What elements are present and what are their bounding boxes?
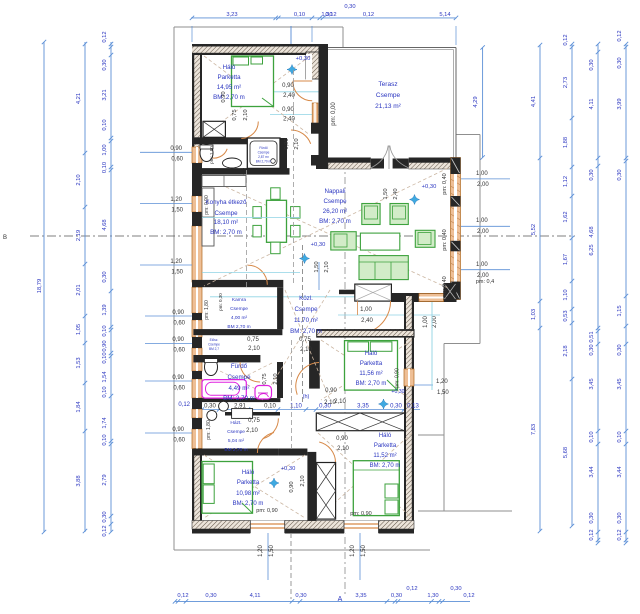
svg-text:BM 2,70 m: BM 2,70 m	[227, 324, 250, 330]
svg-text:Házt.: Házt.	[230, 420, 241, 426]
svg-text:0,30: 0,30	[102, 271, 108, 282]
wall WC/shower bottom	[192, 168, 244, 175]
dim line right col x626	[625, 44, 627, 543]
diag bedroomBL	[204, 455, 305, 518]
svg-text:4,11: 4,11	[589, 99, 595, 110]
svg-text:2,10: 2,10	[300, 475, 306, 486]
svg-text:5,52: 5,52	[531, 224, 537, 235]
svg-text:Nappali: Nappali	[325, 188, 346, 195]
diag bedroomTL	[204, 56, 310, 135]
wall bedroomTL bottom right part	[248, 140, 254, 168]
svg-text:pm: 0,40: pm: 0,40	[442, 173, 448, 194]
svg-text:pm: 0,90: pm: 0,90	[350, 511, 371, 517]
door arc hazt	[263, 418, 279, 438]
svg-text:1,62: 1,62	[563, 211, 569, 222]
french door leaves symbol	[371, 146, 409, 169]
armchair living 1	[362, 204, 380, 225]
blue vlines bottom windows	[267, 533, 269, 580]
svg-text:0,90: 0,90	[284, 138, 290, 149]
svg-text:4,00 m²: 4,00 m²	[231, 315, 248, 321]
svg-text:11,70 m²: 11,70 m²	[294, 317, 318, 324]
svg-text:0,10: 0,10	[617, 431, 623, 442]
wall bedroomBR1 left	[309, 341, 320, 389]
svg-text:2,40: 2,40	[361, 318, 373, 324]
left wall piers lower	[192, 163, 202, 196]
svg-text:0,10: 0,10	[102, 352, 108, 363]
svg-text:1,74: 1,74	[102, 417, 108, 429]
svg-text:18,79: 18,79	[37, 279, 43, 294]
window living bottom	[419, 294, 444, 302]
terrace outline double line	[328, 47, 456, 49]
svg-text:pm: 0,40: pm: 0,40	[442, 276, 448, 297]
svg-text:4,11: 4,11	[250, 593, 261, 599]
svg-text:pm: 0,30: pm: 0,30	[218, 293, 223, 311]
projection dashed x246	[246, 170, 248, 290]
svg-text:Csempe: Csempe	[208, 343, 220, 347]
wall bottom hatch layer	[192, 521, 414, 530]
wall bedroomTL inner right	[306, 54, 312, 84]
svg-text:Csempe: Csempe	[230, 306, 248, 312]
svg-text:2,00: 2,00	[477, 182, 489, 188]
svg-text:11,56 m²: 11,56 m²	[359, 371, 382, 377]
svg-text:0,30: 0,30	[102, 511, 108, 522]
svg-text:2,10: 2,10	[300, 347, 312, 353]
dim line left col3	[110, 42, 112, 532]
svg-text:Parketta: Parketta	[374, 443, 397, 449]
wall left outer	[192, 44, 202, 532]
svg-text:0,90: 0,90	[221, 91, 227, 102]
dining chairs right	[291, 207, 300, 219]
blue vline right lower	[431, 302, 433, 390]
wall kamra right	[277, 287, 283, 329]
svg-text:0,30: 0,30	[617, 169, 623, 180]
wall furdo bottom	[193, 398, 280, 402]
svg-text:1,84: 1,84	[76, 401, 82, 413]
section line below	[290, 533, 292, 599]
svg-text:Csempe: Csempe	[376, 92, 401, 99]
roof overhang line right of terrace	[456, 134, 480, 136]
mark diamond hall	[379, 399, 389, 409]
svg-text:1,20: 1,20	[258, 545, 264, 557]
wall stub left of entry	[339, 290, 355, 295]
door arc bedroomTL	[241, 122, 258, 139]
side chair living right	[415, 230, 435, 247]
svg-text:0,90: 0,90	[172, 427, 184, 433]
svg-text:1,50: 1,50	[269, 545, 275, 557]
svg-text:0,90: 0,90	[282, 107, 294, 113]
svg-text:1,20: 1,20	[436, 379, 448, 385]
section line A vertical dashed	[344, 162, 346, 595]
svg-text:2,79: 2,79	[102, 474, 108, 485]
site boundary bottom thin line	[174, 549, 430, 551]
door arc furdo	[240, 362, 260, 382]
svg-text:1,10: 1,10	[290, 404, 302, 410]
sill hatch right	[409, 163, 454, 170]
dim line right col x572	[571, 44, 573, 526]
svg-text:0,90: 0,90	[336, 436, 348, 442]
svg-text:0,10: 0,10	[102, 434, 108, 445]
svg-text:Csempe: Csempe	[258, 151, 270, 155]
wall vestibule-left lower	[311, 155, 320, 166]
svg-text:2,10: 2,10	[324, 400, 336, 406]
svg-text:7,83: 7,83	[531, 424, 537, 435]
svg-text:0,10: 0,10	[294, 12, 305, 18]
svg-text:3,45: 3,45	[617, 378, 623, 389]
wall right lower (x404)	[404, 296, 414, 532]
bed BR2	[353, 461, 399, 516]
svg-text:1,00: 1,00	[102, 144, 108, 155]
bed BL	[202, 462, 253, 514]
svg-text:0,30: 0,30	[617, 344, 623, 355]
wall living top (terrace south)	[316, 158, 456, 166]
dim line left col2	[84, 42, 86, 532]
svg-text:2,10: 2,10	[334, 399, 346, 405]
window bottom bedroom1	[250, 521, 284, 534]
svg-text:BM: 2,70 m: BM: 2,70 m	[290, 328, 322, 335]
svg-text:0,30: 0,30	[102, 59, 108, 70]
svg-text:0,30: 0,30	[295, 593, 306, 599]
door arc bedroomBR1	[296, 363, 319, 395]
svg-text:2,00: 2,00	[432, 316, 438, 328]
svg-text:0,12: 0,12	[363, 12, 374, 18]
svg-text:2,10: 2,10	[294, 138, 300, 149]
svg-text:2,10: 2,10	[273, 373, 279, 384]
pier living right corner top	[451, 158, 461, 175]
projection dashed x302	[302, 245, 304, 402]
svg-text:BM: 2,70 m: BM: 2,70 m	[233, 501, 264, 507]
svg-text:1,05: 1,05	[76, 324, 82, 335]
wardrobe mid xbox	[316, 413, 404, 431]
window glass lines right wall	[454, 158, 457, 300]
wc sink	[223, 158, 242, 168]
sill hatch left	[328, 163, 371, 170]
svg-text:+0,30: +0,30	[296, 56, 311, 62]
shower tub top	[247, 138, 280, 168]
dim line hall strip	[196, 409, 420, 411]
kitchen counter	[202, 188, 214, 246]
furdo toilet	[205, 359, 218, 376]
left wall pier kitchen 3	[192, 272, 202, 280]
svg-text:0,30: 0,30	[617, 512, 623, 523]
wall vestibule-left upper	[311, 123, 320, 134]
svg-text:3,35: 3,35	[355, 593, 366, 599]
wall furdo right	[277, 362, 283, 398]
svg-text:1,03: 1,03	[531, 309, 537, 320]
svg-text:1,00: 1,00	[476, 262, 488, 268]
svg-text:10,98 m²: 10,98 m²	[236, 491, 260, 497]
door arc kamra	[248, 265, 268, 285]
svg-text:Csempe: Csempe	[227, 429, 245, 435]
svg-text:0,90: 0,90	[172, 310, 184, 316]
svg-text:2,40: 2,40	[393, 188, 399, 199]
svg-text:0,90: 0,90	[172, 337, 184, 343]
svg-text:pm: 0,90: pm: 0,90	[256, 508, 277, 514]
wardrobe BL2 xbox	[316, 463, 335, 520]
svg-text:0,90: 0,90	[170, 146, 182, 152]
svg-text:0,60: 0,60	[173, 386, 185, 392]
svg-text:1,30: 1,30	[427, 593, 438, 599]
entry door arc	[369, 301, 391, 332]
cyan helper line mid	[210, 296, 450, 298]
svg-text:BM: 2,70 m: BM: 2,70 m	[213, 94, 245, 101]
diag kozl	[285, 290, 330, 400]
svg-text:+0,30: +0,30	[311, 242, 326, 248]
svg-text:1,50: 1,50	[361, 545, 367, 557]
svg-text:0,30: 0,30	[391, 593, 402, 599]
svg-text:(h): (h)	[303, 394, 310, 400]
dining chair bottom	[271, 242, 280, 254]
svg-text:+0,30: +0,30	[281, 466, 296, 472]
wall bedroomBR1 top	[317, 329, 414, 338]
svg-text:0,30: 0,30	[450, 586, 461, 592]
svg-text:BM: 2,70 m: BM: 2,70 m	[356, 381, 387, 387]
svg-text:BM: 2,70 m: BM: 2,70 m	[319, 218, 351, 225]
armchair living 2	[390, 204, 408, 225]
svg-text:2,18: 2,18	[563, 345, 569, 356]
svg-text:2,10: 2,10	[337, 446, 349, 452]
svg-text:pm: 1,80: pm: 1,80	[209, 146, 214, 164]
svg-text:0,30: 0,30	[204, 404, 216, 410]
svg-text:pm: 0,90: pm: 0,90	[204, 195, 210, 215]
svg-text:0,12: 0,12	[617, 30, 623, 41]
svg-text:1,67: 1,67	[563, 254, 569, 265]
svg-text:pm: 0,4: pm: 0,4	[476, 279, 494, 285]
svg-text:1,50: 1,50	[437, 390, 449, 396]
svg-text:5,14: 5,14	[439, 12, 451, 18]
svg-text:BM: 2,70 m: BM: 2,70 m	[370, 463, 401, 469]
svg-text:Csempe: Csempe	[294, 306, 318, 313]
svg-text:0,60: 0,60	[171, 157, 183, 163]
svg-text:0,10: 0,10	[102, 325, 108, 336]
door arc entry top (vestibule)	[293, 80, 312, 82]
wall mid horizontal (kamra bottom)	[193, 329, 282, 335]
corner pier living SE	[444, 283, 457, 300]
svg-text:0,75: 0,75	[262, 373, 268, 384]
sofa living	[359, 256, 408, 280]
svg-text:1,10: 1,10	[563, 289, 569, 300]
hazt washer circle	[207, 410, 217, 420]
chair living left	[331, 232, 356, 250]
svg-text:2,00: 2,00	[477, 273, 489, 279]
window bottom bedroom2	[344, 521, 379, 534]
svg-text:1,39: 1,39	[102, 304, 108, 315]
dim line left 18,79	[43, 42, 45, 532]
cyan witness kitchen 1	[202, 217, 300, 219]
svg-text:4,49 m²: 4,49 m²	[229, 385, 250, 392]
svg-text:2,10: 2,10	[243, 109, 249, 120]
svg-text:Háló: Háló	[242, 470, 255, 476]
wall hazt top	[225, 412, 280, 416]
top extension lines	[191, 26, 193, 42]
svg-text:+0,30: +0,30	[422, 184, 437, 190]
svg-text:0,60: 0,60	[173, 438, 185, 444]
wall furdo top	[193, 355, 260, 362]
svg-text:Kamra: Kamra	[232, 297, 246, 303]
svg-text:Háló: Háló	[223, 64, 236, 71]
svg-text:B: B	[3, 235, 7, 241]
svg-text:1,50: 1,50	[383, 188, 389, 199]
svg-text:4,41: 4,41	[531, 96, 537, 107]
svg-text:BM 2,70 m: BM 2,70 m	[256, 160, 272, 164]
diag kitchen-living big	[204, 177, 448, 288]
svg-text:1,20: 1,20	[170, 259, 182, 265]
svg-text:Konyha étkező: Konyha étkező	[206, 199, 247, 206]
svg-text:pm: 1,80: pm: 1,80	[204, 300, 210, 320]
svg-text:1,20: 1,20	[170, 197, 182, 203]
diag bedroomBR2	[318, 433, 412, 518]
svg-text:2,10: 2,10	[246, 428, 258, 434]
wall living bottom right	[391, 293, 457, 302]
svg-text:pm: 0,40: pm: 0,40	[442, 229, 448, 250]
wall hazt bottom	[193, 449, 278, 456]
svg-text:Háló: Háló	[379, 433, 392, 439]
diag furdo	[204, 363, 272, 397]
svg-text:1,12: 1,12	[563, 176, 569, 187]
svg-text:1,00: 1,00	[476, 218, 488, 224]
kitchen counter top	[202, 176, 246, 187]
svg-text:1,53: 1,53	[76, 357, 82, 368]
wall living right hatch	[451, 158, 461, 164]
svg-text:pm: 0,90: pm: 0,90	[395, 368, 401, 388]
svg-text:1,88: 1,88	[563, 137, 569, 148]
wall bedroomBL right	[307, 452, 316, 521]
svg-text:Fürdő: Fürdő	[259, 146, 268, 150]
site boundary left+top thin line	[173, 27, 175, 550]
window left wall k1	[192, 196, 202, 212]
svg-text:1,20: 1,20	[350, 545, 356, 557]
coffee table living	[360, 233, 399, 250]
svg-text:0,90: 0,90	[289, 481, 295, 492]
orange run left wall kitchen	[192, 226, 202, 282]
window right lower	[404, 369, 414, 386]
projection dashed x291	[293, 70, 295, 283]
svg-text:0,12: 0,12	[563, 34, 569, 45]
svg-text:0,51: 0,51	[589, 331, 595, 342]
wall top (bedroom block)	[192, 44, 326, 55]
wall bottom dark layer	[192, 529, 414, 534]
svg-text:1,50: 1,50	[171, 208, 183, 214]
svg-text:0,30: 0,30	[344, 4, 355, 10]
svg-text:0,30: 0,30	[205, 593, 216, 599]
svg-text:Parketta: Parketta	[237, 480, 260, 486]
svg-text:BM 2,70 m: BM 2,70 m	[224, 447, 247, 453]
svg-text:Elősz.: Elősz.	[210, 338, 219, 342]
svg-text:Közl.: Közl.	[299, 295, 313, 302]
svg-text:Csempe: Csempe	[214, 210, 238, 217]
svg-text:Háló: Háló	[365, 351, 378, 357]
door arc bedroomBR2	[319, 442, 335, 463]
entry alcove	[355, 284, 392, 301]
svg-text:0,10: 0,10	[102, 386, 108, 397]
svg-text:0,30: 0,30	[589, 59, 595, 70]
diag bedroomBR1	[321, 340, 412, 400]
svg-text:21,13 m²: 21,13 m²	[375, 103, 401, 110]
svg-text:3,23: 3,23	[226, 12, 237, 18]
svg-text:0,12: 0,12	[589, 529, 595, 540]
svg-text:A: A	[338, 596, 343, 603]
terrace door frame	[312, 103, 318, 125]
svg-text:0,75: 0,75	[248, 418, 260, 424]
dining table	[267, 200, 287, 242]
svg-text:18,10 m²: 18,10 m²	[214, 219, 238, 226]
door arc wc small	[209, 149, 227, 158]
svg-text:3,44: 3,44	[617, 466, 623, 478]
svg-text:4,68: 4,68	[102, 219, 108, 230]
svg-text:Parketta: Parketta	[217, 74, 241, 81]
svg-text:1,00: 1,00	[423, 316, 429, 328]
svg-text:2,10: 2,10	[76, 174, 82, 185]
svg-text:14,95 m²: 14,95 m²	[217, 84, 241, 91]
svg-text:4,29: 4,29	[473, 96, 479, 107]
svg-text:0,12: 0,12	[178, 402, 190, 408]
cyan witness kitchen 2	[202, 272, 300, 274]
svg-text:0,90: 0,90	[172, 375, 184, 381]
cyan helper line terrace door	[270, 91, 328, 93]
wall living right base	[451, 158, 461, 300]
wall vestibule right upper	[319, 44, 329, 166]
door arc vestibule-living	[291, 130, 311, 144]
svg-text:2,73: 2,73	[563, 77, 569, 88]
wall corridor-bedroom2	[278, 449, 307, 456]
svg-text:2,01: 2,01	[76, 284, 82, 295]
svg-text:3,35: 3,35	[357, 404, 369, 410]
svg-text:0,10: 0,10	[264, 404, 276, 410]
pier living right corner bottom	[451, 282, 461, 300]
svg-text:5,04 m²: 5,04 m²	[228, 438, 245, 444]
svg-text:0,12: 0,12	[177, 593, 188, 599]
french door opening	[371, 158, 409, 170]
svg-text:0,30: 0,30	[390, 404, 402, 410]
svg-text:BM 2,7: BM 2,7	[209, 347, 219, 351]
roof overhang line lower right	[444, 343, 480, 345]
wc toilet	[200, 145, 213, 162]
svg-text:0,60: 0,60	[173, 321, 185, 327]
dim line right terrace 4,29	[482, 48, 484, 158]
svg-text:0,12: 0,12	[325, 12, 336, 18]
dining chair top	[271, 188, 280, 200]
svg-text:Csempe: Csempe	[323, 198, 347, 205]
blue vline top section	[290, 26, 292, 44]
pier living right 2	[451, 241, 461, 252]
dining chairs left	[253, 207, 261, 219]
svg-text:1,00: 1,00	[360, 307, 372, 313]
bed BR1	[345, 341, 398, 391]
svg-text:0,12: 0,12	[102, 31, 108, 42]
svg-text:4,68: 4,68	[589, 226, 595, 237]
blue leader kitchen door	[318, 262, 320, 290]
dim line right col x598	[597, 44, 599, 543]
pier living right 1	[451, 196, 461, 207]
svg-text:2,10: 2,10	[324, 261, 330, 272]
svg-text:1,15: 1,15	[617, 305, 623, 316]
bathtub magenta	[202, 380, 246, 399]
svg-text:0,30: 0,30	[589, 512, 595, 523]
orange run left wall kamra	[192, 287, 202, 313]
svg-text:4,21: 4,21	[76, 93, 82, 104]
svg-text:0,12: 0,12	[617, 529, 623, 540]
svg-text:BM: 2,70 m: BM: 2,70 m	[210, 229, 242, 236]
svg-text:+0,30: +0,30	[391, 389, 404, 395]
svg-text:0,12: 0,12	[406, 586, 417, 592]
wall shower right	[280, 138, 287, 169]
entry niche hatched	[306, 52, 320, 79]
svg-text:0,75: 0,75	[232, 109, 238, 120]
dim line right col x540	[539, 45, 541, 531]
svg-text:1,54: 1,54	[102, 371, 108, 383]
svg-text:Fürdő: Fürdő	[231, 363, 248, 370]
svg-text:Parketta: Parketta	[360, 361, 383, 367]
svg-text:0,75: 0,75	[247, 337, 259, 343]
